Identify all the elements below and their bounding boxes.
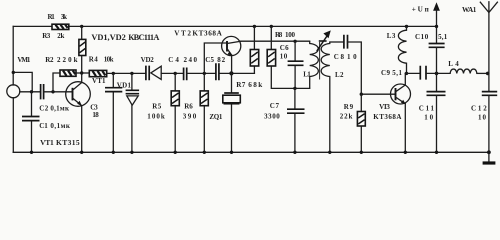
node C11 ground junction xyxy=(435,151,438,154)
node C3 ground junction xyxy=(112,151,115,154)
inductor L2 xyxy=(321,42,344,152)
svg-text:10: 10 xyxy=(478,113,487,121)
wire VT2 collector line xyxy=(241,40,310,42)
node R2 tap on base wire xyxy=(51,90,54,93)
capacitor C5 xyxy=(205,56,225,80)
wire C9 to L4 xyxy=(426,72,450,74)
capacitor C10 xyxy=(415,33,448,92)
svg-text:VD1,VD2: VD1,VD2 xyxy=(91,33,125,42)
wire C8 to VT3 base xyxy=(348,42,396,94)
wire stub supply to C1 node xyxy=(13,72,32,91)
node ZQ1 ground junction xyxy=(230,151,233,154)
inductor L4 xyxy=(448,60,477,74)
wire left vertical from rail to microphone xyxy=(12,26,14,85)
svg-text:5,1: 5,1 xyxy=(438,33,448,41)
svg-text:3k: 3k xyxy=(61,13,67,21)
node L2 ground junction xyxy=(328,151,331,154)
svg-text:KT368A: KT368A xyxy=(373,113,401,121)
node rail junction R3 xyxy=(80,25,83,28)
svg-text:3300: 3300 xyxy=(264,112,280,120)
svg-text:C12: C12 xyxy=(471,105,487,113)
svg-text:R2: R2 xyxy=(45,56,54,64)
node R6 ground junction xyxy=(203,151,206,154)
varicap VD1 xyxy=(117,73,139,152)
capacitor C1 xyxy=(22,92,71,153)
node ZQ1 emitter junction xyxy=(229,71,233,75)
svg-text:10k: 10k xyxy=(104,56,114,64)
node C3 junction xyxy=(112,72,115,75)
svg-text:ZQ1: ZQ1 xyxy=(209,113,223,121)
svg-text:R4: R4 xyxy=(89,56,99,64)
transistor VT3 xyxy=(373,73,410,152)
svg-text:C9: C9 xyxy=(381,69,391,77)
svg-text:220k: 220k xyxy=(57,56,78,64)
svg-text:5,1: 5,1 xyxy=(392,69,402,77)
resistor R9 xyxy=(340,94,366,152)
wire VD2 to C4 xyxy=(161,72,183,74)
svg-text:VT2: VT2 xyxy=(174,30,191,38)
node VT1 emitter ground junction xyxy=(80,151,83,154)
svg-text:VT3: VT3 xyxy=(379,103,390,111)
wire C5 to emitter node xyxy=(219,72,255,74)
svg-text:C11: C11 xyxy=(419,105,435,113)
svg-text:R8: R8 xyxy=(275,31,283,39)
resistor R1 xyxy=(48,13,69,29)
svg-text:0,1мк: 0,1мк xyxy=(50,104,70,112)
node VD1 junction xyxy=(130,72,133,75)
wire bottom ground rail xyxy=(13,151,489,153)
node C1 ground junction xyxy=(30,151,33,154)
svg-text:C7: C7 xyxy=(270,102,280,110)
wire L2 to C8 xyxy=(330,41,344,43)
supply +Un arrow xyxy=(412,2,440,43)
capacitor C11 xyxy=(419,92,446,153)
resistor R8 xyxy=(267,26,310,88)
wire VT3 collector RF line xyxy=(405,72,420,74)
node antenna junction xyxy=(486,72,490,76)
wire microphone output xyxy=(20,91,41,93)
capacitor C8 xyxy=(334,35,357,61)
node C6 collector junction xyxy=(293,40,296,43)
transformer core xyxy=(319,43,321,80)
svg-text:C10: C10 xyxy=(415,33,429,41)
svg-text:R1: R1 xyxy=(48,13,56,21)
resistor R3 xyxy=(79,26,86,73)
node C10 C11 junction xyxy=(435,72,439,76)
resistor R6 xyxy=(183,73,209,152)
wire C2 to VT1 base xyxy=(44,91,73,93)
node VD1 ground junction xyxy=(130,151,133,154)
ferrite tuning arrow xyxy=(317,30,331,51)
node R5 ground junction xyxy=(174,151,177,154)
varicap VD2 xyxy=(141,56,162,80)
svg-text:КВС111А: КВС111А xyxy=(128,33,159,42)
svg-text:+Uп: +Uп xyxy=(412,6,429,14)
svg-text:22k: 22k xyxy=(340,112,353,120)
svg-text:VD1: VD1 xyxy=(117,82,132,90)
capacitor C2 xyxy=(39,84,70,112)
transistor VT2 xyxy=(174,30,241,74)
resistor R5 xyxy=(147,73,179,152)
transistor VT1 xyxy=(40,73,106,152)
svg-text:390: 390 xyxy=(183,112,197,120)
wire top supply rail xyxy=(13,25,436,27)
svg-text:10: 10 xyxy=(280,53,288,61)
node VT3 base junction xyxy=(360,93,363,96)
svg-text:R6: R6 xyxy=(184,103,193,111)
svg-text:L1: L1 xyxy=(303,71,311,79)
capacitor C6 xyxy=(280,41,304,88)
wire R2 to collector node xyxy=(76,72,89,74)
svg-text:0,1мк: 0,1мк xyxy=(50,122,70,130)
microphone VM1 xyxy=(7,56,31,98)
node VT1 collector junction xyxy=(80,71,83,74)
wire VT2 base lead xyxy=(204,43,227,73)
node R6 base junction xyxy=(203,72,206,75)
capacitor C7 xyxy=(264,88,304,152)
svg-text:C6: C6 xyxy=(280,44,289,52)
svg-text:R7: R7 xyxy=(236,81,245,89)
node C1 junction xyxy=(30,90,33,93)
ground symbol xyxy=(483,152,496,163)
capacitor C9 xyxy=(381,66,426,80)
inductor L1 xyxy=(303,41,318,88)
inductor L3 xyxy=(387,26,407,73)
node tank bottom junction xyxy=(293,87,296,90)
svg-text:240: 240 xyxy=(184,56,198,64)
node left supply junction xyxy=(12,71,15,74)
svg-text:68k: 68k xyxy=(248,81,262,89)
antenna WA1 xyxy=(462,2,497,92)
capacitor C3 xyxy=(90,73,122,152)
svg-text:L2: L2 xyxy=(335,71,344,79)
svg-text:VT1: VT1 xyxy=(92,77,106,85)
svg-text:WA1: WA1 xyxy=(462,6,477,14)
svg-text:100: 100 xyxy=(285,31,296,39)
wire L4 to antenna line xyxy=(477,72,489,74)
resistor R2 xyxy=(45,56,77,77)
node rail junction L3 xyxy=(405,25,408,28)
node VT3 emitter ground junction xyxy=(404,151,407,154)
node R9 ground junction xyxy=(360,151,363,154)
svg-text:82: 82 xyxy=(217,56,225,64)
wire R4 to C3 node xyxy=(107,72,146,74)
wire C4 to C5 xyxy=(187,72,216,74)
wire microphone bottom to ground rail xyxy=(12,98,14,153)
svg-text:VM1: VM1 xyxy=(17,56,31,64)
node ground rail right junction xyxy=(487,150,491,154)
node L3 collector junction xyxy=(405,72,408,75)
svg-text:KT368A: KT368A xyxy=(192,30,222,38)
svg-text:18: 18 xyxy=(92,111,99,119)
node R5 junction xyxy=(174,72,177,75)
svg-text:L3: L3 xyxy=(387,32,396,40)
svg-text:VD2: VD2 xyxy=(141,56,155,64)
svg-text:10: 10 xyxy=(424,113,433,121)
wire R2 left lead xyxy=(53,73,60,92)
svg-text:R5: R5 xyxy=(152,103,162,111)
svg-text:C1: C1 xyxy=(39,122,48,130)
svg-text:C5: C5 xyxy=(205,56,214,64)
quartz ZQ1 xyxy=(209,73,240,152)
capacitor C12 xyxy=(471,92,497,153)
node rail junction R8 xyxy=(270,25,273,28)
node rail junction R7 xyxy=(253,25,256,28)
resistor R4 xyxy=(89,56,114,77)
svg-text:C2: C2 xyxy=(39,104,49,112)
svg-text:VT1: VT1 xyxy=(40,138,54,147)
svg-text:2k: 2k xyxy=(57,32,64,40)
svg-text:R3: R3 xyxy=(42,32,51,40)
svg-text:R9: R9 xyxy=(344,103,354,111)
resistor R7 xyxy=(250,26,258,73)
svg-text:100k: 100k xyxy=(147,112,165,120)
node rail supply junction xyxy=(435,25,438,28)
node C7 ground junction xyxy=(293,151,296,154)
svg-text:KT315: KT315 xyxy=(56,138,80,147)
capacitor C4 xyxy=(168,56,197,80)
